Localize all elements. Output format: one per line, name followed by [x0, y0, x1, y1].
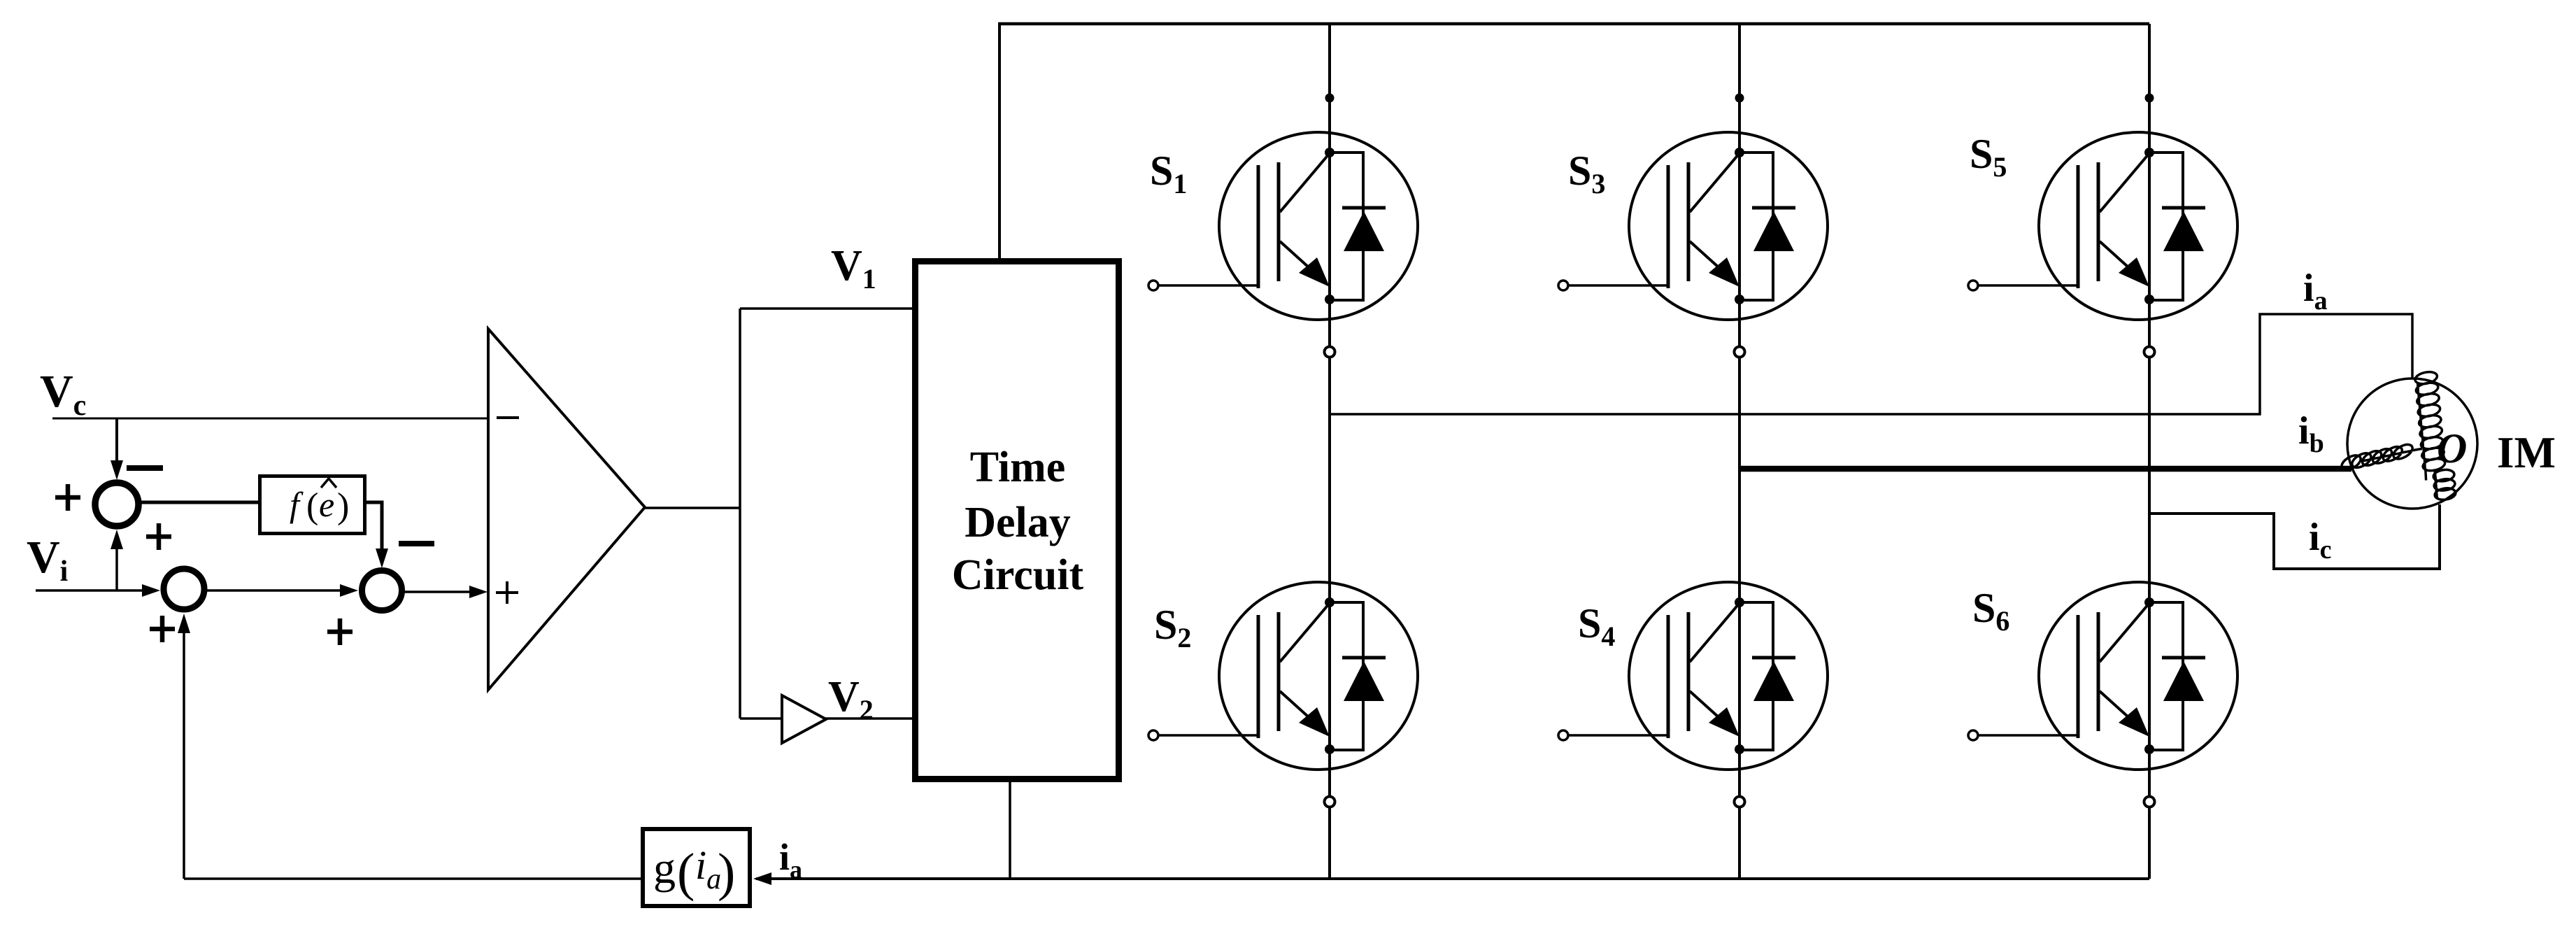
- node junction dot leg A top: [1325, 94, 1335, 103]
- block U2: Time Delay Circuit: [916, 262, 1119, 779]
- wire: Vc input line to comparator minus input: [52, 418, 489, 420]
- wire: comparator output: [645, 507, 740, 509]
- wire: phase C from leg C midpoint to motor (ic): [2149, 504, 2440, 569]
- svg-text:): ): [337, 486, 349, 526]
- wire: Vi input line with arrowhead into summer S_C: [36, 589, 144, 592]
- summing junction S_C: [164, 569, 204, 609]
- wire: S_B output to comparator plus input with arrowhead: [404, 590, 469, 593]
- svg-text:(: (: [677, 843, 695, 902]
- wire: V1 branch into time delay circuit: [740, 307, 915, 310]
- buffer (inverter triangle) on V2 line: [782, 695, 826, 743]
- node junction dot leg B top: [1735, 94, 1744, 103]
- wire: S_A output to f(e) block: [139, 501, 259, 504]
- summing junction S_A: [95, 483, 138, 526]
- wire: S_C output to S_B with arrowhead: [206, 589, 340, 592]
- wire: leg B vertical: [1738, 24, 1741, 879]
- svg-text:Time: Time: [970, 444, 1066, 491]
- motor winding coil C (lower squiggle): [2433, 469, 2456, 500]
- minus sign at S_B top input: [399, 541, 434, 546]
- block g(ia) current feedback: [643, 829, 750, 906]
- block f(e): [260, 476, 365, 534]
- summing junction S_B: [362, 571, 402, 611]
- wire: riser from output to V1 and V2 branches: [739, 309, 741, 719]
- minus sign inside comparator: [497, 416, 519, 419]
- op-amp comparator U1: [488, 329, 645, 690]
- wire: f(e) output right then down into summer S_B with arrowhead: [365, 502, 382, 550]
- motor M1: induction machine circle: [2347, 378, 2477, 509]
- transistor S5 (IGBT with antiparallel diode): [1968, 132, 2237, 358]
- wire: feedback vertical from bottom rail up into S_C with arrowhead: [183, 623, 185, 879]
- wire: time delay circuit top feed to DC bus: [998, 24, 1001, 258]
- svg-text:Circuit: Circuit: [952, 551, 1084, 599]
- wire: leg A vertical: [1328, 24, 1331, 879]
- svg-text:(: (: [306, 486, 318, 526]
- transistor S3 (IGBT with antiparallel diode): [1558, 132, 1828, 358]
- wire: up arrow from Vi line into S_A bottom: [115, 539, 118, 590]
- wire: phase A from leg A midpoint to motor (ia): [1330, 314, 2412, 414]
- wire: phase B from leg B midpoint to motor (ib): [1739, 466, 2351, 472]
- wire: drop from Vc line to summing junction with arrowhead: [115, 418, 118, 463]
- wire: bottom rail from g(ia) to leg C: [756, 877, 2149, 880]
- node junction dot leg C top: [2145, 94, 2154, 103]
- wire: time delay circuit bottom to lower rail: [1009, 782, 1011, 879]
- transistor S6 (IGBT with antiparallel diode): [1968, 582, 2237, 807]
- wire: buffer output into time delay circuit: [825, 717, 915, 720]
- svg-text:Delay: Delay: [965, 499, 1071, 546]
- wire: leg C vertical: [2148, 24, 2151, 879]
- wire: V2 branch lower into buffer: [740, 717, 782, 720]
- transistor S4 (IGBT with antiparallel diode): [1558, 582, 1828, 807]
- plus sign below-left of S_B: [327, 618, 353, 645]
- plus sign below-left of S_C: [150, 616, 175, 642]
- plus sign inside comparator: [496, 581, 518, 604]
- svg-text:O: O: [2437, 425, 2467, 472]
- svg-text:g: g: [653, 843, 676, 893]
- transistor S2 (IGBT with antiparallel diode): [1148, 582, 1418, 807]
- svg-text:IM: IM: [2497, 428, 2556, 477]
- plus sign below first summer: [146, 523, 171, 550]
- motor winding coil B (horizontal squiggle): [2342, 444, 2422, 469]
- svg-text:e: e: [319, 485, 334, 524]
- wire: top DC bus: [998, 22, 2149, 26]
- wire: feedback horizontal from S_C drop to g(ia) block: [184, 877, 641, 880]
- svg-text:): ): [718, 843, 735, 902]
- plus sign at first summer left: [55, 484, 80, 511]
- motor winding coil A (vertical squiggle): [2415, 372, 2445, 481]
- transistor S1 (IGBT with antiparallel diode): [1148, 132, 1418, 358]
- minus sign at first summer top input: [127, 465, 163, 471]
